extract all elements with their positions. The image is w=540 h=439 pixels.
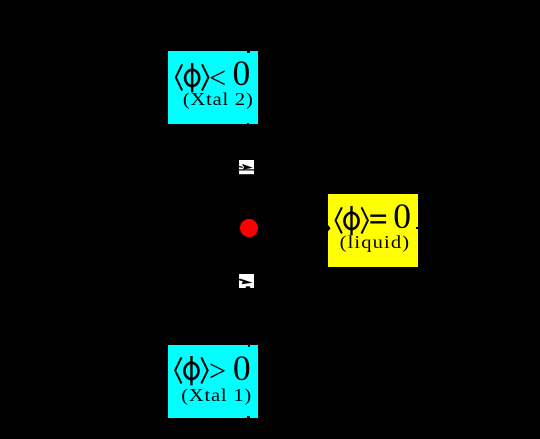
region label box (Xtal 2), cyan <box>168 51 258 124</box>
critical point (red dot) <box>240 219 258 238</box>
arrow marker (top), white patch with black arrowhead <box>239 160 255 175</box>
notch on left edge of liquid box (arrowhead tip) <box>328 225 332 233</box>
notch on bottom edge of Xtal2 box (wire stub) <box>247 123 249 125</box>
notch on bottom edge of Xtal1 box (wire stub) <box>247 416 249 418</box>
region label box (Xtal 1), cyan <box>168 345 258 418</box>
notch on top edge of Xtal2 box (wire stub) <box>247 51 250 53</box>
notch on right edge of liquid box (wire stub) <box>416 227 418 229</box>
notch on top edge of Xtal1 box (wire stub) <box>248 345 250 347</box>
region label box (liquid), yellow <box>328 194 418 267</box>
arrow marker (bottom), white patch with black arrowhead <box>239 274 255 289</box>
